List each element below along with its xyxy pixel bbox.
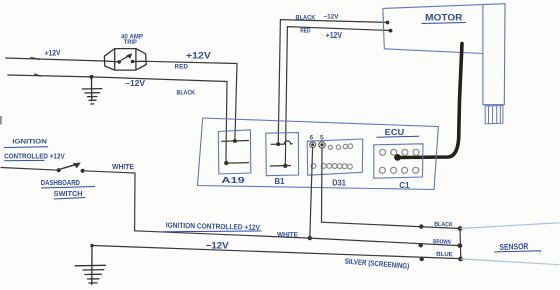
svg-text:BROWN: BROWN — [433, 239, 451, 246]
svg-text:DASHBOARD: DASHBOARD — [41, 180, 80, 187]
svg-text:−12V: −12V — [323, 14, 339, 21]
sensor junction dots — [458, 226, 463, 231]
svg-text:+12V: +12V — [186, 51, 211, 61]
wire D31 pin 5 to sensor (black) — [322, 148, 461, 228]
svg-text:+12V: +12V — [44, 48, 61, 58]
relay A19 contacts — [222, 141, 249, 164]
svg-text:IGNITION CONTROLLED +12V: IGNITION CONTROLLED +12V — [166, 221, 261, 232]
svg-text:B1: B1 — [275, 177, 286, 186]
motor connector hatch — [485, 105, 503, 124]
D31 pin 5 — [319, 142, 325, 148]
SENSOR underline — [494, 251, 541, 252]
svg-text:BLACK: BLACK — [434, 222, 453, 229]
svg-text:5: 5 — [320, 134, 324, 141]
connector D31 box — [307, 139, 363, 175]
D31 bottom row pins — [311, 164, 352, 170]
svg-text:MOTOR: MOTOR — [425, 13, 462, 24]
svg-text:6: 6 — [310, 134, 314, 141]
dashboard switch wire in — [1, 168, 59, 171]
dashboard switch — [57, 163, 85, 173]
C1 bottom row pins — [379, 167, 418, 173]
relay B1 contact dots — [276, 142, 280, 146]
svg-text:WHITE: WHITE — [112, 164, 134, 171]
svg-text:ECU: ECU — [385, 127, 405, 137]
motor box — [383, 4, 505, 105]
junction dot white/pin6 — [308, 236, 312, 240]
svg-text:BLUE: BLUE — [436, 252, 453, 259]
sensor lead top (light blue) — [460, 223, 560, 229]
CONTROLLED underline — [4, 159, 44, 161]
svg-text:−12V: −12V — [206, 240, 230, 251]
arrow dot motor black — [386, 21, 390, 25]
sensor cable junction bar — [459, 229, 462, 259]
wire switch to bottom (white) — [83, 171, 135, 231]
paper edge artifact left — [0, 116, 2, 125]
svg-text:RED: RED — [175, 64, 189, 71]
relay A19 contact dots — [233, 139, 237, 143]
D31 pin 6 — [310, 142, 316, 148]
SWITCH underline — [54, 198, 86, 200]
thick screened cable from motor to ECU — [399, 44, 463, 158]
svg-text:SWITCH: SWITCH — [54, 191, 83, 198]
wire white / brown to sensor — [135, 231, 460, 246]
svg-text:TRIP: TRIP — [124, 39, 137, 46]
wire -12V supply rail — [8, 74, 227, 163]
C1 top row pins — [380, 149, 419, 155]
junction dot black — [419, 224, 423, 228]
svg-text:WHITE: WHITE — [277, 232, 299, 239]
wire D31 pin 6 down — [310, 148, 313, 239]
ECU label underline — [376, 136, 419, 137]
junction dot -12V rail — [90, 75, 94, 79]
D31 top row pins — [328, 144, 352, 150]
wire -12V bottom to sensor (blue) — [92, 246, 460, 259]
relay B1 box — [266, 133, 299, 176]
underline ignition controlled — [163, 230, 262, 233]
wire B1 to motor (red) — [285, 27, 390, 166]
breaker switch arm — [117, 53, 134, 64]
svg-text:D31: D31 — [332, 178, 346, 187]
svg-text:BLACK: BLACK — [296, 14, 316, 21]
svg-text:SENSOR: SENSOR — [499, 241, 528, 252]
svg-text:SILVER (SCREENING): SILVER (SCREENING) — [344, 257, 410, 271]
cable end blob — [394, 154, 401, 161]
IGNITION underline — [4, 146, 48, 149]
junction dot blue — [420, 257, 424, 261]
svg-text:−12V: −12V — [125, 79, 146, 88]
svg-text:BLACK: BLACK — [177, 90, 196, 97]
arrow dot motor red — [389, 29, 393, 33]
svg-text:IGNITION: IGNITION — [12, 139, 46, 146]
DASHBOARD underline — [41, 187, 95, 189]
motor label underline — [422, 23, 466, 24]
ground (top) — [82, 77, 101, 104]
relay A19 box — [218, 130, 251, 174]
sensor lead bottom (light blue) — [461, 259, 560, 265]
relay B1 contacts — [270, 141, 292, 166]
svg-text:+12V: +12V — [326, 31, 343, 40]
ECU connector C1 box — [374, 144, 423, 178]
relay unit outer box — [198, 118, 439, 190]
wire B1 to motor (black) — [278, 20, 387, 144]
svg-text:RED: RED — [300, 29, 311, 35]
wire +12V supply rail — [6, 58, 237, 142]
svg-text:CONTROLLED +12V: CONTROLLED +12V — [4, 153, 65, 160]
breaker 40 AMP TRIP — [104, 49, 146, 71]
ground (bottom) — [75, 246, 106, 285]
svg-text:A19: A19 — [221, 175, 245, 185]
junction dot brown — [419, 243, 423, 247]
corner dot -12V — [90, 244, 94, 248]
svg-text:C1: C1 — [399, 181, 410, 190]
